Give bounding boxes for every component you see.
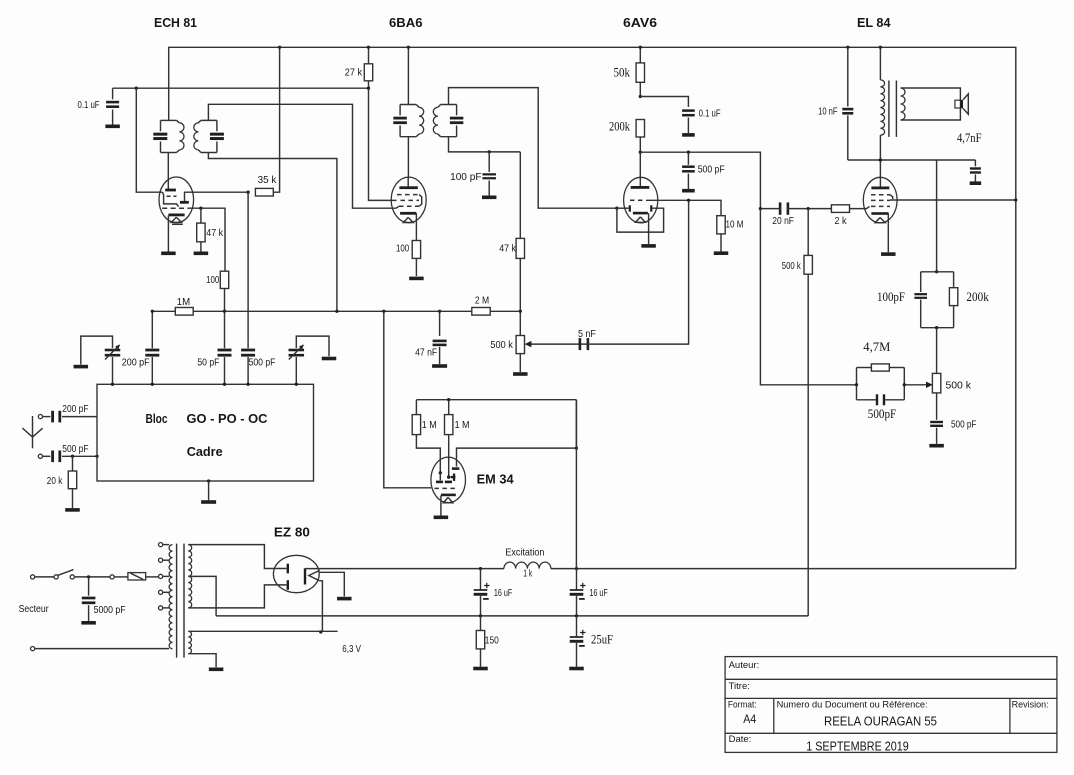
svg-text:20 nF: 20 nF — [772, 215, 794, 227]
node rail-35k — [278, 46, 281, 49]
node 27k bottom — [367, 87, 370, 90]
svg-text:100 pF: 100 pF — [450, 171, 481, 183]
node 20k — [71, 455, 74, 458]
wire ECH81 g2 line — [189, 208, 226, 271]
ground 20k — [65, 508, 80, 512]
wire 6AV6 cathode ground lead — [648, 213, 650, 244]
terminal switch a — [54, 575, 58, 579]
resistor 100 (ECH81) — [220, 271, 228, 288]
capacitor 200pF padder — [151, 311, 153, 348]
node rail-50k — [639, 46, 642, 49]
ground 6.3V winding — [209, 668, 224, 672]
6BA6 heater — [403, 217, 413, 222]
transformer core — [176, 544, 178, 658]
IF transformer T2 primary (6BA6) — [407, 47, 409, 104]
node AGC T1-return — [335, 310, 338, 313]
resistor 2M — [472, 308, 490, 316]
capacitor 500pF (below tone pot) — [936, 393, 938, 420]
svg-text:1 M: 1 M — [455, 419, 470, 431]
output transformer core — [888, 81, 890, 137]
capacitor 200pF antenna — [43, 416, 51, 418]
choke Excitation 1k — [504, 562, 551, 569]
EM34 grid dashes — [434, 487, 455, 489]
IF transformer T2 secondary (6BA6) — [441, 104, 457, 106]
ground 10M — [714, 251, 729, 255]
6AV6 diode plates — [629, 205, 631, 211]
speaker loop — [901, 88, 961, 120]
wire AGC line — [152, 310, 520, 312]
wire EM34 cathode ground lead — [440, 496, 442, 516]
svg-text:1 k: 1 k — [523, 568, 532, 580]
wire EL84 cathode ground lead — [887, 214, 889, 253]
wire HT bottom to EZ80 plate2 — [188, 585, 286, 608]
svg-text:100: 100 — [206, 274, 219, 286]
svg-text:Revision:: Revision: — [1012, 700, 1049, 711]
resistor 47k (6BA6 det) — [519, 152, 521, 239]
node padder bus — [151, 383, 154, 386]
tube EM34 — [431, 457, 466, 503]
svg-text:500pF: 500pF — [868, 407, 896, 421]
svg-text:2 M: 2 M — [475, 294, 489, 306]
capacitor 16uF first — [480, 569, 482, 590]
ground ECH81 cathode — [161, 252, 176, 256]
node AGC left — [151, 310, 154, 313]
node tone bottom — [935, 326, 938, 329]
svg-text:100: 100 — [396, 243, 409, 255]
ground 6AV6 cathode — [641, 244, 656, 248]
svg-text:EZ 80: EZ 80 — [274, 524, 310, 539]
EL84 cathode — [871, 212, 888, 215]
capacitor 100pF (tone) — [920, 272, 922, 292]
EL84 screen connector — [890, 195, 893, 199]
6AV6 cathode — [633, 212, 648, 215]
wire EZ80 heater to 6.3V — [320, 581, 323, 632]
terminal antenna 200pF — [38, 415, 42, 419]
6BA6 grid rows — [397, 194, 419, 196]
capacitor 4.7nF — [974, 160, 976, 166]
ECH81 grid g1 hook — [163, 192, 179, 206]
svg-text:A4: A4 — [743, 712, 756, 726]
capacitor 10nF — [847, 47, 849, 106]
node screen/B+ — [1014, 198, 1017, 201]
svg-text:35 k: 35 k — [258, 174, 277, 186]
ground 47k ECH81 — [194, 252, 209, 256]
ground 500pF tone — [929, 444, 944, 448]
node tone top — [935, 270, 938, 273]
ground 100 6BA6 — [409, 277, 424, 281]
resistor 200k (tone) — [953, 272, 955, 288]
capacitor 5nF — [579, 338, 582, 350]
mains transformer 6.3V secondary — [188, 631, 191, 653]
capacitor 47nF — [439, 311, 441, 336]
ground 5000pF — [81, 621, 96, 625]
svg-text:5000 pF: 5000 pF — [94, 604, 126, 616]
node 35k left — [246, 191, 249, 194]
ground 47nF — [432, 364, 447, 368]
node EM34 divider — [447, 398, 450, 401]
6BA6 cathode — [400, 212, 416, 215]
svg-text:4,7M: 4,7M — [863, 339, 890, 354]
svg-text:50 pF: 50 pF — [197, 357, 219, 369]
potentiometer 500k volume — [519, 311, 521, 335]
svg-text:Numero du Document ou Référenc: Numero du Document ou Référence: — [777, 700, 928, 711]
ground 0.1uF 6AV6 — [682, 133, 695, 137]
ground 100pF — [482, 196, 497, 200]
wire 6AV6 diode loop — [617, 208, 664, 232]
node rail-OT — [879, 46, 882, 49]
svg-text:Titre:: Titre: — [729, 681, 750, 692]
svg-text:Cadre: Cadre — [187, 444, 223, 459]
terminal switch b — [70, 575, 74, 579]
svg-text:100pF: 100pF — [877, 290, 905, 304]
node 20nF left — [759, 207, 762, 210]
node AGC 47k — [519, 310, 522, 313]
svg-text:Secteur: Secteur — [19, 603, 49, 615]
tube EZ80 — [273, 555, 319, 592]
IF transformer T1 secondary (ECH81) — [201, 119, 217, 121]
node feedback left — [855, 383, 858, 386]
wire EM34 grid feed — [384, 311, 431, 488]
fuse — [128, 573, 146, 580]
wire T1 primary feeds — [167, 153, 169, 190]
svg-text:Excitation: Excitation — [505, 547, 544, 559]
svg-text:200 pF: 200 pF — [122, 357, 150, 369]
IF transformer T1 primary (ECH81) — [161, 119, 177, 121]
svg-text:Format:: Format: — [728, 700, 757, 711]
EM34 cathode — [441, 494, 456, 497]
node AGC 100 — [223, 310, 226, 313]
wire feedback from 20nF node — [760, 209, 856, 385]
wire T2 secondary bottom detector line — [449, 137, 521, 152]
EL84 anode — [871, 187, 889, 190]
capacitor 500pF padder — [241, 349, 255, 352]
feedback network 4,7M/500pF — [856, 368, 858, 400]
capacitor 500pF antenna — [43, 455, 51, 457]
node 2k/500k — [807, 207, 810, 210]
terminal mains L2 — [30, 647, 34, 651]
node plate-160 — [879, 158, 882, 161]
node 5000pF — [87, 575, 90, 578]
wire 6.3V line — [188, 630, 337, 632]
tone network frame 100pF/200k — [921, 271, 954, 273]
svg-text:10 M: 10 M — [726, 219, 744, 231]
capacitor 25uF — [576, 616, 578, 637]
ground EM34 — [434, 516, 449, 520]
wire EZ80 heater arm to ground — [320, 572, 345, 596]
antenna symbol — [32, 416, 34, 448]
wire B+ top rail — [169, 47, 1016, 568]
EZ80 cathode bar — [304, 568, 306, 584]
wire 35k junction to padder — [247, 192, 249, 344]
EL84 heater — [875, 218, 885, 223]
resistor 35k — [255, 188, 273, 196]
EM34 deflector bars — [451, 476, 456, 478]
wire T2 secondary top to 6AV6 diode — [449, 88, 617, 209]
svg-text:47 k: 47 k — [206, 227, 223, 239]
capacitor 5000pF — [88, 577, 90, 596]
wire 6AV6 anode lead — [639, 152, 641, 186]
svg-text:ECH 81: ECH 81 — [154, 15, 197, 30]
wire EL84 screen line — [890, 199, 1016, 201]
terminal antenna 500pF — [38, 454, 42, 458]
svg-text:2 k: 2 k — [835, 215, 848, 227]
potentiometer 500k (tone) — [936, 328, 938, 374]
output transformer primary — [879, 47, 881, 80]
resistor 150 — [480, 616, 482, 631]
EM34 left target — [439, 471, 442, 474]
svg-text:200k: 200k — [966, 290, 989, 304]
svg-text:1M: 1M — [177, 296, 190, 308]
svg-text:EM 34: EM 34 — [477, 471, 515, 486]
node 6AV6 grid — [687, 199, 690, 202]
wiper arrow tone — [904, 384, 929, 386]
svg-text:50k: 50k — [614, 66, 631, 80]
capacitor 100pF (detector) — [488, 152, 490, 172]
capacitor 50pF padder — [224, 311, 226, 348]
svg-text:27 k: 27 k — [345, 67, 363, 79]
wire grid riser ECH81 — [136, 88, 162, 192]
EM34 grid node — [447, 475, 450, 478]
svg-text:4,7nF: 4,7nF — [957, 130, 982, 145]
resistor 2k — [831, 205, 849, 213]
wire EM34 right anode feed — [457, 400, 577, 467]
terminal mains L1 — [30, 575, 34, 579]
svg-text:16 uF: 16 uF — [589, 587, 607, 599]
tube ECH81 — [159, 177, 194, 223]
resistor 4,7M — [857, 367, 872, 369]
svg-text:47 nF: 47 nF — [415, 347, 437, 359]
svg-text:500 pF: 500 pF — [951, 419, 976, 431]
ECH81 heater — [171, 217, 181, 222]
svg-text:500 k: 500 k — [946, 380, 972, 392]
node CV1 bus — [111, 383, 114, 386]
wire plate line y=160 — [848, 159, 976, 161]
resistor 20k — [72, 456, 74, 471]
ECH81 grid dashes row1 — [167, 195, 177, 197]
svg-text:0.1 uF: 0.1 uF — [78, 99, 100, 111]
node 6.3V — [319, 630, 322, 633]
6AV6 grid dashes — [630, 199, 646, 201]
wire B+ line — [481, 568, 504, 570]
ground 0.1uF — [105, 125, 120, 129]
svg-text:1 M: 1 M — [422, 419, 437, 431]
svg-text:150: 150 — [485, 635, 499, 647]
resistor 1M left (EM34) — [415, 400, 417, 415]
node 200k bottom — [639, 151, 642, 154]
svg-text:5 nF: 5 nF — [578, 328, 596, 340]
capacitor 20nF — [779, 202, 782, 214]
wire 20nF left — [760, 208, 781, 210]
node rail-27k — [367, 46, 370, 49]
ground 150 — [473, 667, 488, 671]
node 16uF-1 — [479, 567, 482, 570]
resistor 200k — [636, 120, 644, 138]
capacitor 0.1uF (6AV6) — [640, 97, 688, 108]
wire EZ80 cathode output — [305, 568, 481, 570]
ECH81 grid dashes row2 long — [162, 207, 188, 209]
wire 6AV6 grid line — [646, 200, 721, 215]
node 500pF box — [95, 455, 98, 458]
node 150 — [479, 614, 482, 617]
ground Bloc — [207, 479, 210, 482]
wire 6BA6 cathode lead — [415, 213, 417, 240]
EZ80 heater — [309, 570, 320, 580]
EL84 grid rows — [871, 194, 890, 196]
svg-text:200k: 200k — [609, 120, 631, 134]
variable capacitor CV2 — [296, 336, 329, 356]
terminal fuse — [110, 575, 114, 579]
node g2/47k — [199, 207, 202, 210]
svg-text:0.1 uF: 0.1 uF — [699, 108, 721, 120]
node AGC 47nF — [438, 310, 441, 313]
svg-text:16 uF: 16 uF — [494, 587, 512, 599]
EM34 heater — [443, 497, 452, 502]
EM34 right target — [452, 467, 459, 470]
wire HT centre tap to return rail — [188, 576, 216, 616]
wire detector node line — [640, 152, 760, 208]
svg-text:REELA OURAGAN 55: REELA OURAGAN 55 — [824, 713, 937, 728]
tube EL84 — [863, 177, 897, 223]
6AV6 heater — [636, 217, 646, 222]
wire 27k to 6BA6 screen — [369, 88, 397, 200]
svg-text:Date:: Date: — [729, 734, 752, 745]
wire HT top to EZ80 plate — [188, 545, 286, 569]
resistor 47k (ECH81) — [200, 208, 202, 223]
resistor 1M right (EM34) — [448, 400, 450, 415]
node EM34 anode line — [575, 446, 578, 449]
node 50k bottom — [639, 95, 642, 98]
resistor 27k — [368, 47, 370, 64]
mains transformer primary — [169, 545, 172, 649]
node 50pF bus — [223, 383, 226, 386]
wire 6.3V winding bottom to ground — [188, 654, 216, 668]
node 500pF 6AV6 — [687, 151, 690, 154]
svg-text:EL 84: EL 84 — [857, 15, 891, 30]
EZ80 plate 2 — [287, 580, 289, 590]
wire screen line y=88 — [113, 87, 369, 89]
mains transformer HT secondary — [188, 545, 191, 608]
ECH81 triode anode — [180, 201, 189, 204]
svg-text:20 k: 20 k — [47, 475, 63, 487]
tube 6AV6 — [624, 177, 658, 223]
svg-text:6BA6: 6BA6 — [389, 15, 423, 30]
node rail-6BA6-IFT — [407, 46, 410, 49]
wire ECH81 cathode to ground — [167, 216, 169, 252]
node feedback right — [903, 383, 906, 386]
svg-text:500 k: 500 k — [490, 339, 513, 351]
svg-text:1 SEPTEMBRE 2019: 1 SEPTEMBRE 2019 — [806, 738, 909, 753]
capacitor 500pF (6AV6) — [687, 152, 689, 165]
ground EL84 cathode — [881, 252, 896, 256]
svg-text:6,3 V: 6,3 V — [342, 643, 361, 655]
svg-text:6AV6: 6AV6 — [623, 15, 657, 30]
svg-text:47 k: 47 k — [499, 243, 516, 255]
wire mains top — [35, 576, 54, 578]
wire mains bottom — [35, 648, 169, 650]
wire EM34 supply riser — [575, 400, 577, 569]
node 16uF-2 — [575, 567, 578, 570]
resistor 10M — [717, 216, 725, 234]
node 500pF bus — [246, 383, 249, 386]
wire T1 secondary bottom to AGC — [208, 153, 337, 312]
svg-text:GO - PO - OC: GO - PO - OC — [187, 411, 269, 426]
node OT bottom — [879, 158, 882, 161]
EZ80 plate 1 — [287, 564, 289, 574]
6AV6 anode — [631, 186, 650, 189]
ground 500k volume — [513, 372, 528, 376]
wire 5nF to 6AV6 grid — [587, 200, 689, 344]
speaker — [955, 100, 961, 108]
capacitor 500pF (feedback) — [857, 399, 877, 401]
resistor 100 (6BA6) — [412, 241, 420, 259]
ground CV1 — [74, 365, 89, 369]
svg-text:500 pF: 500 pF — [698, 163, 725, 175]
svg-text:25uF: 25uF — [591, 632, 613, 647]
tube 6BA6 — [391, 177, 426, 223]
node CV2 bus — [295, 383, 298, 386]
ground 25uF — [569, 667, 584, 671]
wire B+ after choke — [551, 568, 1016, 570]
node AGC EM34 — [382, 310, 385, 313]
primary taps — [159, 543, 163, 547]
node rail-10nF — [846, 46, 849, 49]
ECH81 cathode — [168, 214, 184, 217]
switch blade — [58, 570, 74, 576]
wire plate to tone network — [936, 160, 938, 272]
ground 500pF 6AV6 — [682, 189, 695, 193]
svg-text:Auteur:: Auteur: — [729, 660, 760, 671]
ECH81 heptode anode — [165, 189, 176, 192]
ground CV2 — [322, 357, 337, 361]
ground EZ80 heater — [337, 597, 352, 601]
svg-text:500 pF: 500 pF — [62, 443, 88, 455]
wire 20nF right to 2k — [787, 208, 832, 210]
resistor 50k — [639, 47, 641, 63]
wiper arrow 500k volume — [529, 343, 588, 345]
wire EM34 divider top — [416, 399, 576, 401]
output transformer secondary — [901, 88, 905, 120]
wire T1 secondary top to 6BA6 grid — [208, 104, 399, 208]
svg-text:10 nF: 10 nF — [818, 106, 837, 118]
node 0.1uF-grid riser — [135, 87, 138, 90]
node 25uF — [575, 614, 578, 617]
ground 4.7nF — [970, 181, 982, 185]
variable capacitor CV1 — [81, 336, 113, 364]
resistor 500k (grid leak) — [807, 209, 809, 256]
svg-text:Bloc: Bloc — [146, 411, 168, 426]
6BA6 grid right connector — [419, 195, 422, 207]
Bloc GO-PO-OC box — [97, 384, 314, 481]
wire HT return rail — [216, 615, 808, 617]
svg-text:500 k: 500 k — [782, 260, 802, 272]
capacitor 0.1uF (ECH81 screen) — [112, 88, 114, 99]
svg-text:200 pF: 200 pF — [62, 403, 88, 415]
wire 2k to EL84 grid — [850, 206, 870, 208]
6BA6 anode — [399, 186, 417, 189]
title block — [725, 657, 1057, 753]
node detector 100pF — [488, 150, 491, 153]
resistor 1M — [175, 308, 193, 316]
svg-text:500 pF: 500 pF — [249, 357, 276, 369]
node 6AV6 diode line — [615, 207, 618, 210]
capacitor 16uF second — [576, 569, 578, 590]
